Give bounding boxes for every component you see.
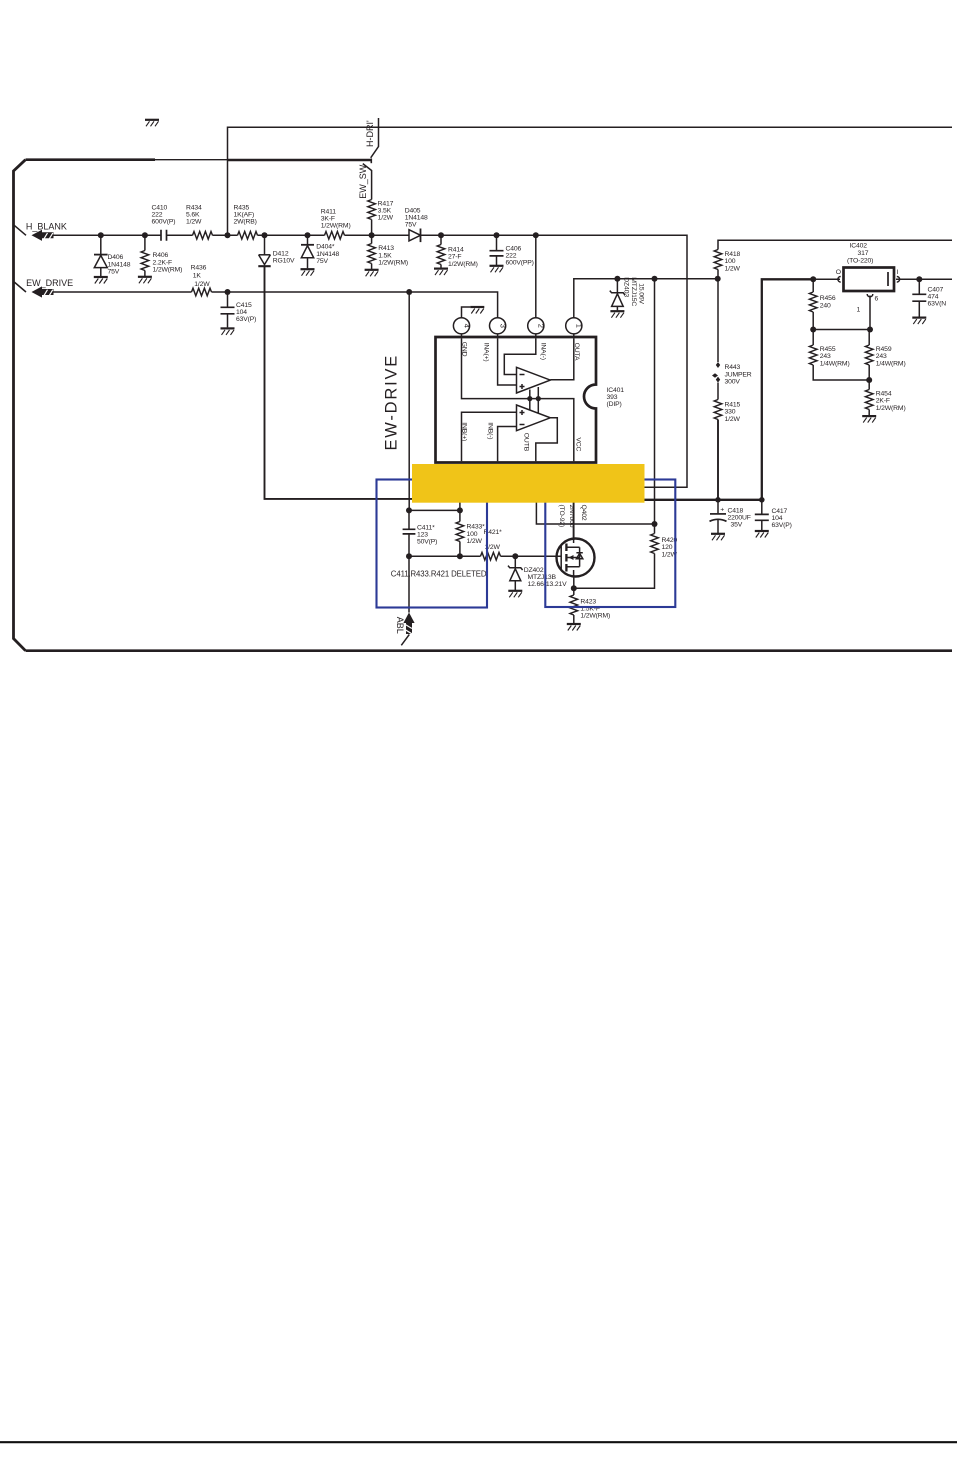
svg-text:(DIP): (DIP) [607,401,622,408]
svg-text:27-F: 27-F [448,254,461,261]
wire: H_BLANK net [54,232,688,487]
svg-text:1N4148: 1N4148 [405,215,428,222]
svg-text:OUTA: OUTA [573,343,580,361]
svg-text:D405: D405 [405,208,421,215]
svg-text:2.2K-F: 2.2K-F [153,259,173,266]
svg-text:O: O [836,269,841,276]
op-amp B triangle [517,399,551,431]
svg-text:1/2W(RM): 1/2W(RM) [321,222,351,229]
op-amp U: IC401 body [436,337,625,463]
svg-text:2: 2 [537,324,546,328]
resistor R406 (to ground) [138,235,182,283]
svg-text:C411*: C411* [417,525,435,532]
node H_BLANK (off-page arrow) [14,222,67,241]
svg-text:EW-DRIVE: EW-DRIVE [383,354,401,451]
IC401 internal: INB(-) column [486,422,516,461]
resistor R454 (to ground) [862,380,905,423]
diode D404 (clamp to ground) [301,235,340,275]
svg-text:1/2W: 1/2W [725,416,741,423]
svg-text:300V: 300V [725,379,741,386]
svg-text:C411.R433.R421 DELETED: C411.R433.R421 DELETED [391,570,487,579]
wire: regulator adjust [810,296,873,333]
svg-text:1/2W(RM): 1/2W(RM) [378,260,408,267]
svg-text:C406: C406 [506,246,522,253]
resistor R443 jumper [712,279,752,400]
svg-text:R456: R456 [820,295,836,302]
svg-text:R454: R454 [876,390,892,397]
regulator IC402 [836,243,900,314]
svg-text:D406: D406 [108,254,124,261]
pin 2 circle [528,318,546,337]
wire: top net from vertical riser to right edge [228,127,953,235]
svg-text:OUTB: OUTB [523,433,530,452]
svg-text:R406: R406 [153,252,169,259]
svg-text:6: 6 [875,295,879,302]
svg-text:75V: 75V [405,222,417,229]
wire: feedback column to R420 [654,279,656,524]
resistor R421 (series in gate line) [406,529,561,560]
svg-text:222: 222 [152,211,163,218]
resistor R415 [714,400,740,500]
svg-text:63V(P): 63V(P) [772,522,792,529]
svg-text:243: 243 [876,353,887,360]
wire: regulator output heavy bus [644,276,840,502]
pin 3 circle [490,318,508,337]
svg-text:15.06V: 15.06V [638,283,645,304]
svg-text:35V: 35V [731,521,743,528]
svg-text:C418: C418 [728,507,744,514]
resistor R434 (series) [186,204,213,239]
svg-text:75V: 75V [108,269,120,276]
svg-text:1N4148: 1N4148 [108,261,131,268]
svg-text:D412: D412 [273,250,289,257]
svg-text:R423: R423 [580,598,596,605]
svg-text:63V(N: 63V(N [928,301,947,308]
svg-text:1/4W(RM): 1/4W(RM) [876,360,906,367]
resistor R411 (series) [321,208,351,239]
node ABL (off-page arrow) [395,556,415,645]
highlight bar (yellow) [412,464,645,503]
svg-text:393: 393 [607,394,618,401]
svg-text:R455: R455 [820,346,836,353]
op-amp A triangle [517,367,551,398]
svg-text:R413: R413 [378,245,394,252]
wire: pin2 riser to H_BLANK [535,235,537,317]
svg-text:1/2W: 1/2W [725,265,741,272]
svg-text:330: 330 [725,409,736,416]
svg-text:INA(-): INA(-) [539,343,546,360]
svg-text:C417: C417 [772,508,788,515]
resistor R456 [809,279,835,329]
svg-text:1/2W(RM): 1/2W(RM) [153,267,183,274]
wire: D412 cathode to IC401 (under highlight) [265,266,501,499]
svg-text:1: 1 [575,324,584,328]
capacitor C411 [403,507,438,556]
zener DZ402 (to ground) [508,556,567,597]
svg-text:4: 4 [462,324,471,328]
svg-text:R411: R411 [321,208,337,215]
svg-text:12.66-13.21V: 12.66-13.21V [528,581,568,588]
svg-text:R414: R414 [448,247,464,254]
resistor R417 [368,200,394,236]
svg-text:(TO-92): (TO-92) [558,505,565,528]
svg-text:R459: R459 [876,346,892,353]
svg-text:100: 100 [467,531,478,538]
svg-text:3K-F: 3K-F [321,215,335,222]
svg-text:H-DRI': H-DRI' [365,120,375,147]
resistor R435 (series) [234,204,258,239]
footer rule line [0,1441,957,1443]
svg-text:C415: C415 [236,302,252,309]
wire: OUTA return to highlighted area [644,486,687,488]
transistor Q402 (MOSFET) [557,466,595,588]
svg-text:1/2W(RM): 1/2W(RM) [580,613,610,620]
svg-text:R415: R415 [725,402,741,409]
resistor R436 (series) [191,264,212,296]
svg-text:1K(AF): 1K(AF) [234,211,255,218]
resistor R433 (vertical) [409,466,485,556]
svg-text:+: + [720,506,724,513]
svg-text:Q402: Q402 [580,505,587,521]
ground (floating, top area) [145,120,159,127]
svg-text:50V(P): 50V(P) [417,539,437,546]
resistor R420 [574,524,678,588]
resistor R459 [865,330,905,384]
wire: ABL riser to EW_DRIVE [408,292,410,510]
IC401 internal: OUTA column [550,338,580,380]
svg-text:104: 104 [236,309,247,316]
svg-text:600V(PP): 600V(PP) [506,260,534,267]
zener DZ403 (to ground) [610,277,645,317]
node: deleted-area boxes (blue) [377,480,676,608]
svg-text:IC402: IC402 [850,243,868,250]
svg-text:IC401: IC401 [607,387,625,394]
capacitor C406 (to ground) [490,235,534,272]
IC401 internal: GND column + rail [461,338,574,461]
svg-text:120: 120 [662,544,673,551]
resistor R413 (to ground) [365,235,408,276]
capacitor C410 (series) [152,204,176,241]
svg-text:100: 100 [725,258,736,265]
svg-text:D404*: D404* [316,244,335,251]
IC401 internal: OUTB route [523,418,558,461]
svg-text:2K-F: 2K-F [876,398,890,405]
pin 4 circle [453,318,471,337]
svg-text:RG10V: RG10V [273,258,295,265]
resistor R414 (to ground) [434,235,478,275]
node H-DRIVE (vertical stub crossing border) [363,118,379,200]
IC401 internal: INB(+) column [461,412,517,461]
svg-text:1: 1 [857,307,861,314]
svg-text:(TO-220): (TO-220) [847,257,873,264]
svg-text:INB(+): INB(+) [461,422,468,441]
svg-text:DZ403: DZ403 [623,277,630,297]
node EW_DRIVE (off-page arrow) [14,278,73,298]
svg-text:C410: C410 [152,204,168,211]
svg-text:1/2W(RM): 1/2W(RM) [448,261,478,268]
svg-text:1/2W: 1/2W [467,538,483,545]
svg-text:EW_DRIVE: EW_DRIVE [26,278,73,288]
svg-text:1/2W: 1/2W [186,218,202,225]
wire: source node [571,585,577,591]
svg-text:1/2W: 1/2W [378,215,394,222]
svg-text:MTZJ13B: MTZJ13B [528,574,557,581]
svg-text:1.5K: 1.5K [378,252,392,259]
IC401 internal: INA(-) column [504,338,546,374]
svg-text:5.6K: 5.6K [186,211,200,218]
resistor R418 (from top rail) [714,240,952,278]
diode D412 (to ABL feed line) [258,235,295,266]
svg-text:243: 243 [820,353,831,360]
svg-text:63V(P): 63V(P) [236,316,256,323]
svg-text:123: 123 [417,532,428,539]
svg-text:R435: R435 [234,204,250,211]
svg-text:R443: R443 [725,364,741,371]
svg-text:R436: R436 [191,264,207,271]
svg-text:104: 104 [772,515,783,522]
wire: regulator input to right edge [896,276,952,282]
resistor R455 [809,330,869,381]
capacitor C407 (to ground) [912,279,946,324]
resistor R423 (to ground) [567,588,610,630]
svg-text:2W(RB): 2W(RB) [234,218,257,225]
svg-text:R433*: R433* [467,524,486,531]
svg-text:2N7000: 2N7000 [568,505,575,528]
page border frame (decorative) [14,159,953,651]
svg-text:1/2W: 1/2W [194,281,210,288]
svg-text:222: 222 [506,253,517,260]
svg-text:R417: R417 [378,201,394,208]
wire: EW_DRIVE net [54,289,498,318]
svg-text:1/2W(RM): 1/2W(RM) [876,405,906,412]
svg-text:2200UF: 2200UF [728,514,751,521]
svg-text:ABL: ABL [395,617,405,634]
diode D406 (clamp to ground) [94,235,131,283]
svg-text:R434: R434 [186,204,202,211]
svg-text:DZ402: DZ402 [524,567,544,574]
svg-text:JUMPER: JUMPER [725,371,752,378]
svg-text:474: 474 [928,294,939,301]
pin 1 circle [566,318,584,337]
svg-text:C407: C407 [928,287,944,294]
svg-text:1K: 1K [193,273,202,280]
svg-text:H_BLANK: H_BLANK [26,222,67,232]
svg-text:3: 3 [498,324,507,328]
diode D405 (series) [405,208,428,242]
svg-text:MTZJ15C: MTZJ15C [630,277,637,306]
ground at pin 4 [462,307,485,318]
wire: pin7 riser to R420 node [536,466,657,527]
svg-text:I: I [897,269,899,276]
svg-text:240: 240 [820,302,831,309]
svg-text:EW_SW: EW_SW [358,164,368,199]
svg-text:VCC: VCC [575,437,582,451]
svg-text:1/4W(RM): 1/4W(RM) [820,360,850,367]
svg-text:INB(-): INB(-) [486,422,493,439]
svg-text:GND: GND [461,342,468,357]
svg-text:75V: 75V [316,258,328,265]
svg-text:R418: R418 [725,251,741,258]
svg-text:600V(P): 600V(P) [152,218,176,225]
wire: comparator output net (pin1) [574,276,721,318]
capacitor C415 (to ground) [221,292,257,335]
svg-text:317: 317 [858,250,869,257]
svg-text:1N4148: 1N4148 [316,251,339,258]
svg-text:3.5K: 3.5K [378,208,392,215]
IC401 internal: INA(+) column [483,338,517,385]
svg-text:INA(+): INA(+) [483,343,490,362]
capacitor C418 (electrolytic to ground) [710,500,751,541]
capacitor C417 (to ground) [755,500,792,538]
